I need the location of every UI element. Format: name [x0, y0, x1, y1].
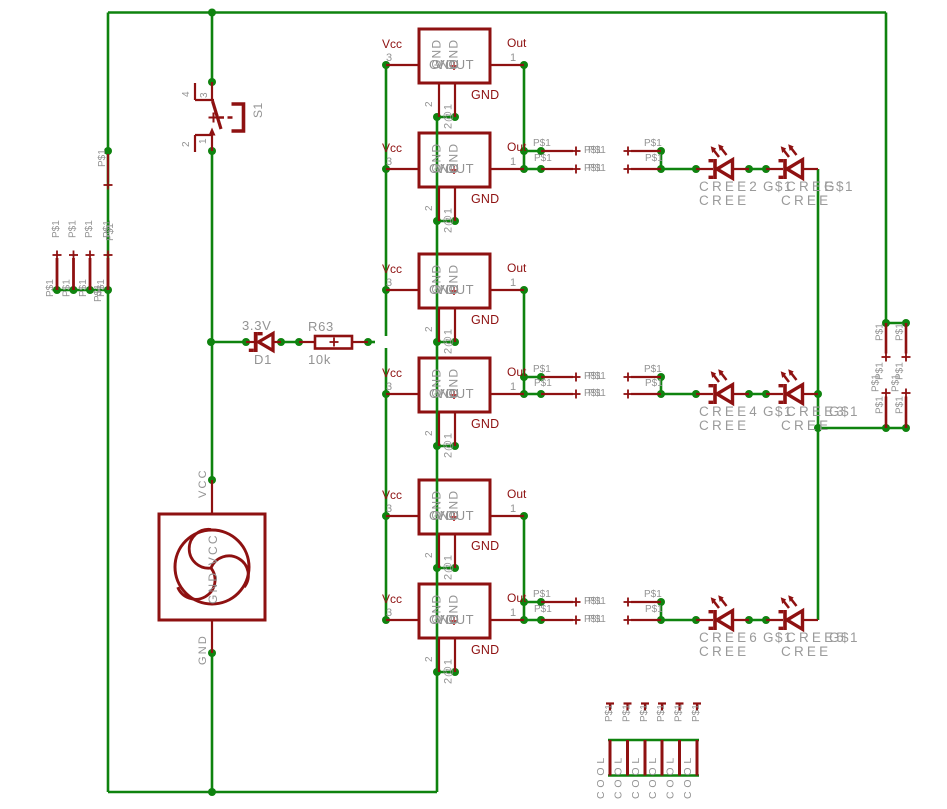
svg-text:Vcc: Vcc: [382, 262, 402, 276]
svg-text:GND: GND: [471, 643, 499, 657]
svg-text:G$1: G$1: [829, 630, 859, 645]
svg-text:P$1: P$1: [644, 138, 662, 149]
svg-text:GND: GND: [471, 88, 499, 102]
svg-text:P$1: P$1: [691, 704, 702, 722]
svg-text:COOL: COOL: [613, 754, 625, 799]
svg-text:Vcc: Vcc: [382, 366, 402, 380]
svg-text:2@1: 2@1: [443, 207, 455, 233]
svg-text:CREE4: CREE4: [699, 404, 760, 419]
svg-text:Vcc: Vcc: [382, 488, 402, 502]
svg-text:P$1: P$1: [97, 149, 108, 167]
svg-text:P$1: P$1: [51, 220, 62, 238]
svg-text:CREE: CREE: [781, 418, 831, 433]
svg-text:D1: D1: [254, 352, 272, 367]
svg-text:P$1: P$1: [534, 378, 552, 389]
svg-text:Vcc: Vcc: [382, 592, 402, 606]
svg-text:2@1: 2@1: [443, 103, 455, 129]
svg-text:P$1: P$1: [895, 396, 906, 414]
svg-text:VCC: VCC: [197, 468, 209, 498]
svg-text:CREE: CREE: [781, 193, 831, 208]
svg-text:GND VCC: GND VCC: [206, 533, 220, 604]
svg-text:P$1: P$1: [644, 364, 662, 375]
svg-text:P$1: P$1: [534, 604, 552, 615]
svg-text:VOUT: VOUT: [436, 282, 474, 297]
svg-text:P$1: P$1: [656, 704, 667, 722]
svg-text:P$1: P$1: [533, 364, 551, 375]
svg-text:GND: GND: [471, 539, 499, 553]
svg-text:P$1: P$1: [45, 279, 56, 297]
svg-text:2@1: 2@1: [443, 554, 455, 580]
svg-text:P$1: P$1: [533, 138, 551, 149]
svg-text:P$1: P$1: [871, 374, 882, 392]
svg-text:3: 3: [386, 381, 392, 393]
svg-text:COOL: COOL: [630, 754, 642, 799]
svg-text:Out: Out: [507, 591, 527, 605]
svg-text:1: 1: [510, 156, 516, 168]
svg-text:P$1: P$1: [644, 589, 662, 600]
svg-text:P$1: P$1: [533, 589, 551, 600]
svg-text:Out: Out: [507, 365, 527, 379]
svg-text:P$1: P$1: [645, 378, 663, 389]
svg-text:CREE: CREE: [781, 644, 831, 659]
svg-text:P$1: P$1: [588, 388, 606, 399]
svg-text:P$1: P$1: [93, 284, 104, 302]
svg-text:GND: GND: [471, 313, 499, 327]
svg-text:P$1: P$1: [645, 153, 663, 164]
svg-text:3: 3: [386, 503, 392, 515]
svg-text:P$1: P$1: [875, 323, 886, 341]
svg-text:CREE: CREE: [699, 193, 749, 208]
svg-text:3: 3: [386, 156, 392, 168]
svg-text:1: 1: [510, 607, 516, 619]
svg-text:1: 1: [510, 52, 516, 64]
svg-text:P$1: P$1: [62, 279, 73, 297]
svg-text:P$1: P$1: [875, 396, 886, 414]
svg-text:P$1: P$1: [674, 704, 685, 722]
svg-text:P$1: P$1: [84, 220, 95, 238]
svg-text:CREE: CREE: [699, 418, 749, 433]
svg-text:VOUT: VOUT: [436, 57, 474, 72]
svg-text:1: 1: [510, 277, 516, 289]
svg-text:COOL: COOL: [682, 754, 694, 799]
svg-text:Out: Out: [507, 487, 527, 501]
svg-text:G$1: G$1: [829, 404, 859, 419]
svg-text:P$1: P$1: [588, 596, 606, 607]
svg-text:P$1: P$1: [78, 279, 89, 297]
svg-text:Out: Out: [507, 140, 527, 154]
svg-text:3: 3: [386, 607, 392, 619]
svg-text:Out: Out: [507, 261, 527, 275]
svg-text:P$1: P$1: [588, 145, 606, 156]
svg-text:P$1: P$1: [588, 163, 606, 174]
svg-text:P$1: P$1: [645, 604, 663, 615]
svg-text:2: 2: [424, 430, 435, 436]
svg-text:CREE6: CREE6: [699, 630, 760, 645]
svg-text:P$1: P$1: [105, 223, 116, 241]
svg-text:COOL: COOL: [665, 754, 677, 799]
svg-text:P$1: P$1: [622, 704, 633, 722]
svg-text:1: 1: [510, 381, 516, 393]
svg-text:1: 1: [510, 503, 516, 515]
svg-text:2: 2: [424, 552, 435, 558]
svg-text:P$1: P$1: [534, 153, 552, 164]
svg-text:P$1: P$1: [891, 374, 902, 392]
svg-text:VOUT: VOUT: [436, 386, 474, 401]
svg-text:2: 2: [424, 656, 435, 662]
svg-text:CREE: CREE: [699, 644, 749, 659]
svg-text:2: 2: [424, 101, 435, 107]
svg-text:COOL: COOL: [647, 754, 659, 799]
svg-text:2: 2: [181, 141, 192, 147]
svg-text:G$1: G$1: [824, 179, 854, 194]
svg-text:P$1: P$1: [588, 371, 606, 382]
svg-text:P$1: P$1: [68, 220, 79, 238]
svg-text:P$1: P$1: [639, 704, 650, 722]
svg-text:3: 3: [386, 277, 392, 289]
svg-text:S1: S1: [251, 102, 265, 118]
svg-text:Vcc: Vcc: [382, 37, 402, 51]
svg-text:VOUT: VOUT: [436, 612, 474, 627]
svg-text:2@1: 2@1: [443, 658, 455, 684]
svg-text:3: 3: [386, 52, 392, 64]
svg-text:CREE2: CREE2: [699, 179, 760, 194]
svg-text:GND: GND: [197, 634, 209, 665]
svg-text:2: 2: [424, 205, 435, 211]
svg-text:3: 3: [199, 92, 210, 98]
svg-text:P$1: P$1: [895, 323, 906, 341]
svg-text:VOUT: VOUT: [436, 508, 474, 523]
svg-text:P$1: P$1: [588, 614, 606, 625]
svg-text:P$1: P$1: [604, 704, 615, 722]
svg-text:Vcc: Vcc: [382, 141, 402, 155]
svg-text:R63: R63: [308, 319, 334, 334]
svg-text:2: 2: [424, 326, 435, 332]
svg-text:1: 1: [198, 138, 209, 144]
svg-text:10k: 10k: [308, 352, 331, 367]
svg-text:GND: GND: [471, 192, 499, 206]
svg-text:VOUT: VOUT: [436, 161, 474, 176]
svg-text:2@1: 2@1: [443, 432, 455, 458]
svg-text:4: 4: [181, 91, 192, 97]
svg-text:COOL: COOL: [595, 754, 607, 799]
svg-text:2@1: 2@1: [443, 328, 455, 354]
svg-text:Out: Out: [507, 36, 527, 50]
svg-text:GND: GND: [471, 417, 499, 431]
svg-text:3.3V: 3.3V: [242, 318, 272, 333]
